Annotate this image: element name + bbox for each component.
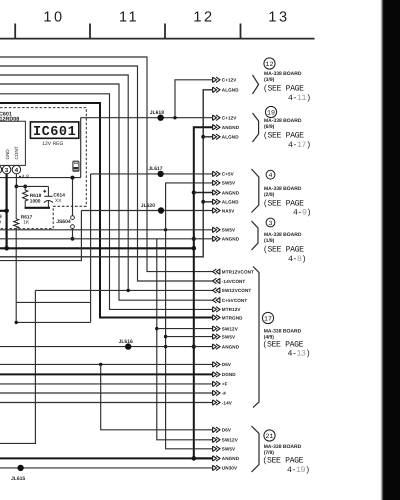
svg-text:SW5V: SW5V (222, 334, 236, 339)
dashed regulator block boundary (0, 108, 86, 229)
svg-text:IC601: IC601 (33, 125, 76, 140)
circled ref 21 (264, 430, 275, 441)
bracket group 4 (252, 169, 259, 213)
wire SW12VCONT (35, 289, 213, 291)
off-page arrow MTR12VCONT (213, 269, 220, 274)
svg-text:C+5VCONT: C+5VCONT (222, 298, 248, 303)
ruler tick 3 (164, 24, 166, 39)
svg-text:ALGND: ALGND (222, 88, 239, 93)
ruler tick 2 (89, 24, 91, 39)
svg-text:(SEE PAGE: (SEE PAGE (263, 200, 304, 209)
svg-text:(3/9): (3/9) (264, 77, 275, 83)
ruler tick 4 (240, 24, 242, 39)
pin 3 circle (2, 165, 10, 173)
off-page arrow C+12V (213, 77, 220, 82)
node JL617 (157, 171, 163, 177)
svg-text:4-8): 4-8) (288, 255, 306, 264)
ALGND bus (0, 90, 213, 257)
svg-text:JS604: JS604 (56, 219, 71, 225)
node JL615 (17, 465, 23, 471)
svg-text:4-13): 4-13) (288, 350, 311, 359)
svg-text:-14V: -14V (222, 400, 233, 405)
wire C+5VCONT nest L4 (0, 84, 213, 300)
svg-text:GND: GND (5, 149, 10, 160)
svg-text:ALGND: ALGND (222, 135, 239, 140)
wire SW5V grp3 line (0, 229, 213, 231)
off-page arrow C+12V (213, 115, 220, 120)
svg-text:4-17): 4-17) (288, 141, 311, 150)
wire -F grp17 (0, 392, 213, 394)
regulator component box (0, 121, 25, 165)
svg-text:C614: C614 (53, 193, 65, 199)
wire ANGND grp21 thick (0, 457, 213, 459)
R617 sense loop upper line (16, 301, 90, 303)
junction dot D6V branch (99, 363, 102, 366)
off-page arrow NA5V (213, 208, 220, 213)
svg-text:R618: R618 (30, 193, 42, 199)
off-page arrow -14V (213, 400, 220, 405)
ANGND bus thick (194, 127, 213, 458)
SW12V bus vertical (157, 239, 213, 440)
wire MTR12V nest L5 (0, 94, 213, 310)
svg-text:SW12V: SW12V (222, 326, 239, 331)
wire R617 bottom drop (15, 230, 17, 322)
bracket group 21 (252, 426, 260, 472)
svg-text:19: 19 (0, 219, 1, 225)
off-page arrow -14VCONT (213, 278, 220, 283)
wire MTRGND thick nest L6 (0, 103, 213, 318)
ruler tick 1 (14, 24, 16, 39)
thick node bar under R618/C614 (25, 207, 50, 209)
off-page arrow SW5V (213, 446, 220, 451)
IC601 label box (30, 122, 78, 138)
off-page arrow SW12V (213, 326, 220, 331)
junction dot rail/JS604 (71, 176, 75, 180)
svg-text:SW5V: SW5V (222, 447, 236, 452)
wire D6V grp17 (0, 363, 213, 365)
voltage annotation 4.8 (19, 176, 21, 178)
wire node to R618/C614 tops (16, 185, 48, 187)
wire ANGND grp17 / JL616 line (0, 346, 213, 348)
svg-text:3: 3 (269, 220, 273, 227)
svg-text:12: 12 (266, 61, 274, 68)
node JL616 (125, 343, 131, 349)
wire JL618 C+12V rail (81, 117, 213, 119)
circled ref 17 (262, 312, 273, 323)
svg-text:4-11): 4-11) (288, 94, 311, 103)
svg-text:(SEE PAGE: (SEE PAGE (263, 246, 304, 255)
off-page arrow -F (213, 390, 220, 395)
off-page arrow MTRGND (213, 315, 220, 320)
wire UN30V grp21 (0, 467, 213, 469)
circled ref 4 (266, 170, 275, 179)
svg-text:MTR12V: MTR12V (222, 307, 242, 312)
svg-text:(SEE PAGE: (SEE PAGE (263, 341, 304, 350)
svg-text:ANGND: ANGND (222, 456, 240, 461)
svg-text:4-19): 4-19) (287, 466, 310, 475)
wire SW5V grp17 (166, 336, 213, 338)
off-page arrow SW5V (213, 180, 220, 185)
svg-text:(2/9): (2/9) (264, 192, 275, 198)
junction dot ANGND grp3 (192, 237, 196, 241)
junction dot R617 drop end (15, 321, 18, 324)
svg-text:4-9): 4-9) (293, 209, 311, 218)
off-page arrow ANGND (213, 344, 220, 349)
node JL618 (157, 115, 163, 121)
svg-text:JL618: JL618 (150, 110, 164, 116)
svg-text:ANGND: ANGND (222, 125, 240, 130)
junction dot ANGND grp17 (192, 345, 196, 349)
junction dot ALGND grp19 (201, 135, 205, 139)
junction dot SW5V bus on ANGND17 (164, 345, 167, 348)
ruler line (0, 24, 315, 39)
svg-text:MTR12VCONT: MTR12VCONT (222, 269, 254, 274)
svg-text:(7/9): (7/9) (264, 450, 275, 456)
svg-text:ANGND: ANGND (222, 344, 240, 349)
svg-text:10: 10 (43, 10, 64, 26)
small connector symbol (73, 161, 79, 171)
svg-text:(1/9): (1/9) (264, 238, 275, 244)
svg-text:SW5V: SW5V (222, 181, 236, 186)
wire DGND grp17 thick (0, 373, 213, 375)
svg-text:JL616: JL616 (119, 339, 133, 345)
bracket group 3 (252, 221, 259, 250)
resistor R618 (23, 186, 28, 203)
off-page arrow +F (213, 381, 220, 386)
junction dot ANGND feed (192, 246, 197, 251)
junction dot pin4 node (15, 185, 19, 189)
svg-text:ANGND: ANGND (222, 190, 240, 195)
off-page arrow MTR12V (213, 307, 220, 312)
junction dot nest L3 on SW12VCONT (127, 289, 130, 292)
junction dot ALGND grp4 (201, 200, 205, 204)
junction dot SW5V bus grp3 (164, 228, 167, 231)
off-page arrow ANGND (213, 456, 220, 461)
svg-text:XX: XX (55, 198, 62, 204)
circled ref 12 (264, 58, 275, 69)
wire nest L3 to SW12VCONT junction (0, 75, 128, 290)
off-page arrow ANGND (213, 236, 220, 241)
off-page arrow ALGND (213, 87, 220, 92)
C+5V feed vertical (90, 174, 92, 323)
svg-text:D6V: D6V (222, 428, 232, 433)
off-page arrow ANGND (213, 125, 220, 130)
junction dot JS604/ANGND3 (71, 237, 75, 241)
off-page arrow D6V (213, 362, 220, 367)
svg-text:(SEE PAGE: (SEE PAGE (263, 457, 304, 466)
junction dot pin3/ANGND feed (4, 246, 9, 251)
svg-text:(6/9): (6/9) (264, 124, 275, 130)
junction dot ANGND grp21 (192, 456, 197, 461)
junction dot GND stub (4, 209, 9, 214)
junction dot R618 top (23, 185, 27, 189)
SW5V bus vertical (166, 183, 213, 449)
svg-text:19: 19 (267, 109, 275, 116)
wire pin4 to rail (15, 174, 17, 187)
svg-text:12: 12 (193, 10, 214, 26)
ruler numbers (43, 10, 289, 26)
wire ALGND grp4 (203, 201, 213, 203)
svg-text:1K: 1K (23, 220, 30, 226)
wire box edge to JL618 rail (80, 118, 82, 178)
wire ANGND grp4 (194, 192, 213, 194)
wire branch up to C+12V grp12 (175, 80, 213, 118)
svg-text:JL620: JL620 (141, 203, 155, 209)
junction dot branch to C+12V grp12 (173, 116, 176, 119)
svg-text:R9: R9 (0, 214, 2, 220)
svg-text:C+12V: C+12V (222, 78, 238, 83)
wire ANGND grp3 line (0, 238, 213, 240)
circled ref 3 (266, 218, 275, 227)
resistor R617 (14, 186, 19, 230)
svg-text:-F: -F (222, 391, 227, 396)
svg-text:C+12V: C+12V (222, 116, 238, 121)
wire -14V grp17 (0, 402, 213, 404)
wire +F grp17 (0, 383, 213, 385)
svg-text:(4/9): (4/9) (264, 334, 275, 340)
svg-text:MTRGND: MTRGND (222, 315, 243, 320)
off-page arrow DGND (213, 372, 220, 377)
svg-text:UN30V: UN30V (222, 466, 238, 471)
svg-text:21: 21 (266, 433, 274, 440)
junction dot ANGND grp4 (192, 190, 196, 194)
svg-text:DGND: DGND (222, 372, 237, 377)
svg-text:NA5V: NA5V (222, 208, 235, 213)
off-page arrow SW5V (213, 227, 220, 232)
off-page arrow C+5VCONT (213, 298, 220, 303)
wire NA5V grp4 (81, 210, 213, 212)
svg-text:CONT: CONT (14, 146, 19, 159)
wire D6V branch to grp21 (101, 364, 213, 429)
bracket group 12 (253, 75, 259, 94)
svg-text:13: 13 (268, 10, 289, 26)
svg-text:12V REG: 12V REG (42, 141, 63, 147)
off-page arrow ALGND (213, 134, 220, 139)
off-page arrow SW12V (213, 437, 220, 442)
svg-text:+F: +F (222, 382, 228, 387)
junction dot SW5V bus grp17 (164, 335, 167, 338)
svg-text:JL615: JL615 (11, 476, 25, 482)
svg-text:-14VCONT: -14VCONT (222, 279, 246, 284)
off-page arrow UN30V (213, 465, 220, 470)
svg-text:SW12V: SW12V (222, 438, 239, 443)
svg-text:17: 17 (264, 315, 272, 322)
svg-text:1000: 1000 (30, 198, 41, 204)
off-page arrow D6V (213, 427, 220, 432)
bracket group 17 (253, 267, 259, 408)
svg-text:R617: R617 (21, 214, 33, 220)
bracket group 19 (253, 113, 259, 142)
IC601 part number (clipped at left edge) (0, 112, 19, 123)
svg-text:(SEE PAGE: (SEE PAGE (263, 85, 304, 94)
off-page arrow SW5V (213, 334, 220, 339)
svg-text:SW5V: SW5V (222, 228, 236, 233)
wire 12V output rail y=177.6 (0, 177, 81, 179)
circled ref 19 (265, 106, 276, 117)
svg-text:C+5V: C+5V (222, 172, 235, 177)
svg-text:JL617: JL617 (148, 166, 162, 172)
svg-text:11: 11 (119, 10, 139, 26)
svg-text:4: 4 (269, 172, 273, 179)
wire MTR12VCONT nest L1 (0, 57, 213, 272)
svg-text:SW12VCONT: SW12VCONT (222, 288, 252, 293)
off-page arrow ANGND (213, 190, 220, 195)
svg-text:(SEE PAGE: (SEE PAGE (263, 132, 304, 141)
junction dot SW12V grp17 (155, 327, 158, 330)
pin 2 circle clipped at edge (0, 165, 2, 173)
wire ANGND feed thick from left (0, 247, 194, 249)
wire stub from left edge to pin3 GND (0, 210, 7, 212)
R617 sense loop lower line (16, 321, 90, 323)
off-page arrow SW12VCONT (213, 288, 220, 293)
jumper JS604 (72, 179, 74, 216)
capacitor C614 (electrolytic) (43, 186, 53, 207)
NA5V feed (0, 211, 81, 261)
SW12VCONT feed vertical (0, 290, 35, 443)
svg-text:ANGND: ANGND (222, 237, 240, 242)
wire ALGND grp19 (203, 136, 213, 138)
svg-text:4.8: 4.8 (22, 174, 29, 180)
wire C+5V grp4 (91, 173, 213, 175)
off-page arrow ALGND (213, 199, 220, 204)
svg-text:D6V: D6V (222, 362, 232, 367)
svg-text:ALGND: ALGND (222, 200, 239, 205)
node JL620 (158, 207, 164, 213)
wire pin3 GND thick drop (5, 174, 7, 249)
wire -14VCONT nest L2 (0, 66, 213, 281)
pin 4 circle (12, 165, 20, 173)
wire SW12V grp17 (157, 328, 213, 330)
off-page arrow C+5V (213, 171, 220, 176)
